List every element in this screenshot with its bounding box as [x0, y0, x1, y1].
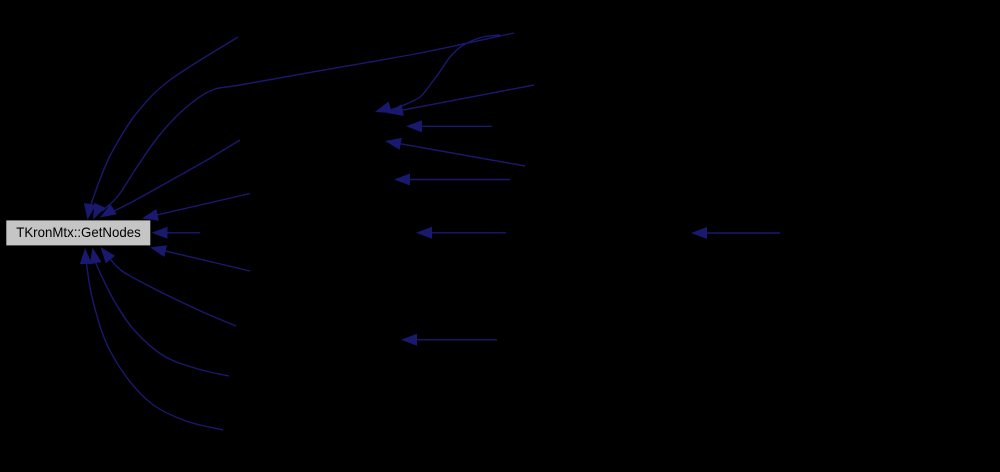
svg-text:TKronMtx::GetNodes: TKronMtx::GetNodes — [16, 224, 141, 240]
